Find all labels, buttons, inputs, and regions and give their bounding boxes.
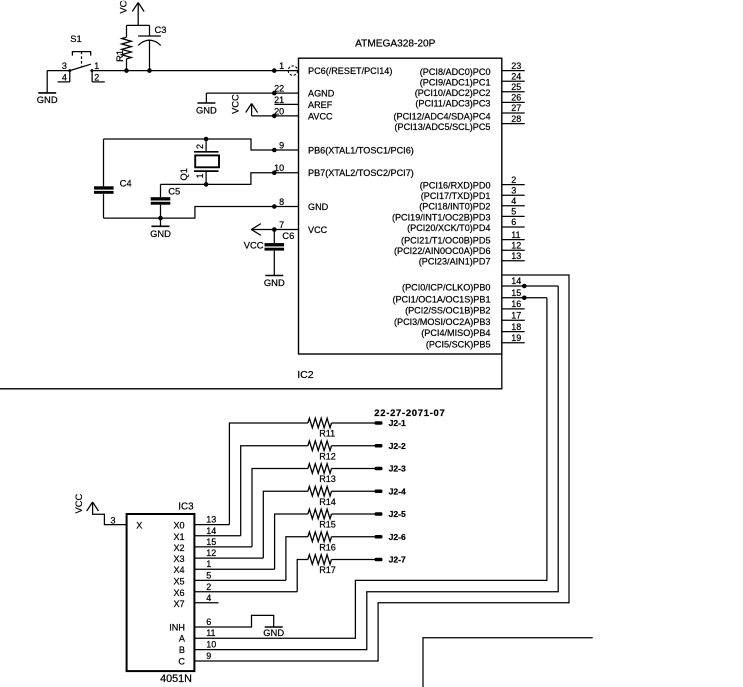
capacitor C4 — [94, 139, 132, 218]
svg-text:5: 5 — [206, 570, 211, 580]
svg-text:AGND: AGND — [308, 89, 335, 99]
wire dangling net (bottom right) — [423, 638, 593, 687]
svg-text:4: 4 — [206, 593, 211, 603]
svg-text:R15: R15 — [319, 520, 336, 530]
svg-text:X3: X3 — [173, 554, 184, 564]
svg-text:12: 12 — [206, 548, 216, 558]
svg-text:R11: R11 — [319, 429, 335, 439]
svg-text:(PCI9/ADC1)PC1: (PCI9/ADC1)PC1 — [420, 77, 491, 87]
IC2 right pin stubs+numbers — [502, 61, 525, 343]
wire X2 to R13 — [252, 469, 308, 547]
svg-text:2: 2 — [206, 582, 211, 592]
junction (C5 bottom) — [158, 216, 163, 221]
svg-text:(PCI23/AIN1)PD7: (PCI23/AIN1)PD7 — [419, 257, 491, 267]
svg-text:IC3: IC3 — [178, 502, 194, 513]
svg-text:C3: C3 — [155, 24, 167, 35]
wire XTAL1 net (pin9) — [104, 139, 299, 152]
wire X6 to R17 — [297, 560, 308, 592]
svg-text:R16: R16 — [319, 542, 336, 552]
svg-text:C6: C6 — [282, 230, 294, 241]
svg-text:AREF: AREF — [308, 100, 333, 110]
svg-text:GND: GND — [150, 228, 171, 239]
svg-text:PB6(XTAL1/TOSC1/PCI6): PB6(XTAL1/TOSC1/PCI6) — [308, 145, 414, 155]
connector pad J2-7 — [375, 555, 407, 565]
svg-text:IC2: IC2 — [297, 369, 314, 381]
svg-text:5: 5 — [511, 207, 516, 217]
svg-text:X4: X4 — [173, 565, 184, 575]
svg-text:6: 6 — [206, 617, 211, 627]
resistor R15 — [308, 509, 375, 529]
svg-text:(PCI20/XCK/T0)PD4: (PCI20/XCK/T0)PD4 — [407, 223, 490, 233]
wire X3 to R14 — [263, 491, 308, 558]
svg-text:3: 3 — [110, 515, 115, 525]
IC2 pin 14 number — [511, 276, 521, 286]
power VCC (AVCC pin20) — [230, 94, 299, 118]
svg-text:1: 1 — [94, 61, 99, 71]
svg-text:VCC: VCC — [308, 225, 328, 235]
svg-text:13: 13 — [206, 515, 216, 525]
svg-text:2: 2 — [94, 73, 99, 83]
ground (C5) — [150, 218, 171, 239]
svg-text:(PCI13/ADC5/SCL)PC5: (PCI13/ADC5/SCL)PC5 — [394, 122, 490, 132]
wire net C (top wire to IC3 pin C) — [194, 275, 569, 661]
ground (AGND pin22) — [196, 91, 299, 116]
connector pad J2-3 — [375, 464, 407, 474]
capacitor C6 — [265, 230, 295, 276]
svg-text:9: 9 — [279, 140, 284, 150]
svg-text:(PCI12/ADC4/SDA)PC4: (PCI12/ADC4/SDA)PC4 — [393, 111, 490, 121]
svg-text:21: 21 — [274, 95, 284, 105]
IC3 control pin numbers — [206, 617, 216, 661]
svg-text:3: 3 — [511, 185, 516, 195]
IC3 pin name X — [136, 521, 142, 531]
svg-text:(PCI11/ADC3)PC3: (PCI11/ADC3)PC3 — [415, 99, 490, 109]
svg-text:S1: S1 — [70, 33, 81, 44]
svg-text:R12: R12 — [319, 451, 336, 461]
junction (C3-net) — [147, 68, 152, 73]
svg-text:VCC: VCC — [117, 0, 128, 14]
svg-text:VCC: VCC — [73, 493, 84, 513]
svg-text:18: 18 — [511, 322, 521, 332]
svg-text:15: 15 — [206, 537, 216, 547]
svg-text:(PCI3/MOSI/OC2A)PB3: (PCI3/MOSI/OC2A)PB3 — [394, 317, 491, 327]
svg-text:24: 24 — [511, 71, 521, 81]
svg-text:X1: X1 — [173, 532, 184, 542]
svg-text:(PCI2/SS/OC1B)PB2: (PCI2/SS/OC1B)PB2 — [405, 305, 490, 315]
svg-text:VCC: VCC — [230, 94, 241, 114]
connector pad J2-5 — [375, 509, 407, 519]
svg-text:17: 17 — [511, 311, 521, 321]
switch S1 — [47, 33, 105, 83]
svg-text:GND: GND — [37, 94, 58, 105]
svg-text:12: 12 — [511, 240, 521, 250]
svg-text:(PCI17/TXD)PD1: (PCI17/TXD)PD1 — [421, 191, 491, 201]
wire bottom outline — [0, 354, 502, 389]
svg-text:B: B — [179, 645, 185, 655]
svg-text:14: 14 — [206, 526, 216, 536]
svg-text:(PCI4/MISO)PB4: (PCI4/MISO)PB4 — [421, 328, 490, 338]
svg-text:J2-2: J2-2 — [389, 441, 406, 451]
ground (C6) — [264, 276, 285, 288]
svg-text:11: 11 — [511, 230, 520, 240]
wire net A (pin15 to IC3 pin A) — [194, 296, 547, 639]
svg-text:13: 13 — [511, 251, 521, 261]
power VCC (IC3 pin3) — [73, 493, 127, 525]
svg-text:(PCI5/SCK)PB5: (PCI5/SCK)PB5 — [426, 339, 491, 349]
svg-text:GND: GND — [196, 105, 217, 116]
svg-text:R1: R1 — [114, 50, 125, 62]
junction (R1-net) — [124, 68, 129, 73]
svg-text:4051N: 4051N — [160, 673, 192, 685]
svg-text:3: 3 — [62, 61, 67, 71]
svg-text:Q1: Q1 — [178, 168, 189, 181]
svg-text:(PCI21/T1/OC0B)PD5: (PCI21/T1/OC0B)PD5 — [401, 236, 490, 246]
svg-text:11: 11 — [206, 628, 215, 638]
svg-text:(PCI0/ICP/CLKO)PB0: (PCI0/ICP/CLKO)PB0 — [402, 283, 490, 293]
connector pad J2-6 — [375, 532, 407, 542]
svg-text:19: 19 — [511, 333, 521, 343]
svg-text:VCC: VCC — [244, 239, 264, 250]
svg-text:(PCI16/RXD)PD0: (PCI16/RXD)PD0 — [420, 181, 491, 191]
wire net B (pin14 to IC3 pin B) — [194, 284, 558, 650]
svg-text:6: 6 — [511, 217, 516, 227]
svg-text:J2-6: J2-6 — [389, 532, 406, 542]
svg-text:8: 8 — [279, 197, 284, 207]
svg-text:GND: GND — [264, 277, 285, 288]
svg-text:14: 14 — [511, 276, 521, 286]
wire X0 to R11 — [229, 423, 308, 525]
svg-text:(PCI10/ADC2)PC2: (PCI10/ADC2)PC2 — [415, 88, 491, 98]
svg-text:C5: C5 — [168, 185, 180, 196]
svg-text:(PCI18/INT0)PD2: (PCI18/INT0)PD2 — [419, 202, 490, 212]
junction (pin1) — [272, 68, 277, 73]
svg-text:25: 25 — [511, 82, 521, 92]
IC2 refdes label — [297, 369, 314, 381]
svg-text:X2: X2 — [173, 543, 184, 553]
resistor R13 — [308, 464, 375, 484]
svg-text:INH: INH — [169, 622, 185, 632]
wire GND net (pin8) — [104, 204, 299, 218]
IC3 4051N body — [127, 502, 195, 685]
svg-text:J2-5: J2-5 — [389, 509, 406, 519]
svg-text:26: 26 — [511, 93, 521, 103]
junction (crystal bottom) — [204, 182, 209, 187]
svg-text:15: 15 — [511, 288, 521, 298]
resistor R12 — [308, 441, 375, 461]
svg-text:A: A — [179, 634, 186, 644]
svg-text:X5: X5 — [173, 576, 184, 586]
svg-text:22-27-2071-07: 22-27-2071-07 — [374, 408, 445, 419]
wire X1 to R12 — [241, 446, 308, 536]
svg-text:J2-1: J2-1 — [389, 418, 406, 428]
svg-text:10: 10 — [206, 640, 216, 650]
connector pad J2-4 — [375, 486, 407, 496]
connector pad J2-2 — [375, 441, 407, 451]
svg-text:R17: R17 — [319, 565, 336, 575]
svg-text:1: 1 — [195, 173, 205, 178]
svg-text:C: C — [178, 656, 185, 666]
IC2 left pin numbers — [274, 61, 284, 230]
IC3 pin names X0-X7 — [173, 521, 184, 609]
wire XTAL2 net (pin10) — [161, 171, 299, 198]
svg-text:X6: X6 — [173, 588, 184, 598]
pin 21 stub (AREF) — [274, 103, 298, 105]
svg-text:AVCC: AVCC — [308, 111, 333, 121]
resistor R14 — [308, 486, 375, 506]
resistor R1 — [114, 25, 131, 70]
capacitor C5 — [151, 185, 180, 218]
power VCC (pin7, left arrow) — [244, 224, 299, 251]
wire X5 to R16 — [286, 537, 308, 581]
resistor R16 — [308, 532, 375, 552]
crystal Q1 — [178, 139, 219, 184]
svg-text:23: 23 — [511, 61, 521, 71]
IC3 X pin stubs+numbers — [194, 515, 297, 603]
svg-text:C4: C4 — [120, 178, 132, 189]
wire X4 to R15 — [275, 514, 308, 569]
IC2 pin 15 number — [511, 288, 521, 298]
svg-text:GND: GND — [263, 627, 284, 638]
power VCC symbol (top) — [117, 0, 149, 25]
svg-text:2: 2 — [511, 175, 516, 185]
svg-text:28: 28 — [511, 114, 521, 124]
wire RESET net — [92, 70, 299, 72]
svg-text:(PCI1/OC1A/OC1S)PB1: (PCI1/OC1A/OC1S)PB1 — [392, 294, 490, 304]
svg-text:ATMEGA328-20P: ATMEGA328-20P — [355, 39, 436, 50]
svg-text:X: X — [136, 521, 142, 531]
IC2 left pin names — [308, 66, 414, 235]
svg-text:1: 1 — [279, 61, 284, 71]
junction (crystal top) — [204, 137, 209, 142]
svg-text:J2-3: J2-3 — [389, 464, 406, 474]
svg-text:1: 1 — [206, 559, 211, 569]
ground (INH pin6) — [194, 615, 284, 638]
capacitor C3 — [138, 24, 166, 70]
svg-text:(PCI19/INT1/OC2B)PD3: (PCI19/INT1/OC2B)PD3 — [392, 212, 491, 222]
svg-text:27: 27 — [511, 103, 521, 113]
IC3 pin names INH A B C — [169, 622, 186, 666]
svg-text:X0: X0 — [173, 521, 184, 531]
resistor R11 — [308, 418, 375, 438]
connector pad J2-1 — [375, 418, 407, 428]
svg-text:(PCI8/ADC0)PC0: (PCI8/ADC0)PC0 — [420, 67, 491, 77]
ground (S1) — [37, 71, 58, 106]
svg-text:9: 9 — [206, 651, 211, 661]
svg-text:J2-7: J2-7 — [389, 555, 406, 565]
svg-text:7: 7 — [279, 220, 284, 230]
svg-text:R13: R13 — [319, 474, 336, 484]
svg-text:4: 4 — [62, 73, 67, 83]
svg-text:R14: R14 — [319, 497, 336, 507]
svg-text:GND: GND — [308, 202, 329, 212]
svg-text:4: 4 — [511, 196, 516, 206]
connector header label — [374, 408, 445, 419]
svg-text:2: 2 — [195, 144, 205, 149]
svg-text:16: 16 — [511, 299, 521, 309]
svg-text:PB7(XTAL2/TOSC2/PCI7): PB7(XTAL2/TOSC2/PCI7) — [308, 168, 414, 178]
svg-text:J2-4: J2-4 — [389, 486, 406, 496]
svg-text:X7: X7 — [173, 599, 184, 609]
IC2 ATMEGA328-20P body — [299, 39, 502, 354]
resistor R17 — [308, 555, 375, 575]
IC2 right pin names — [392, 67, 491, 350]
svg-text:(PCI22/AIN0OC0A)PD6: (PCI22/AIN0OC0A)PD6 — [394, 246, 491, 256]
svg-text:PC6(/RESET/PCI14): PC6(/RESET/PCI14) — [308, 66, 392, 76]
pin 1 bubble — [288, 66, 297, 75]
